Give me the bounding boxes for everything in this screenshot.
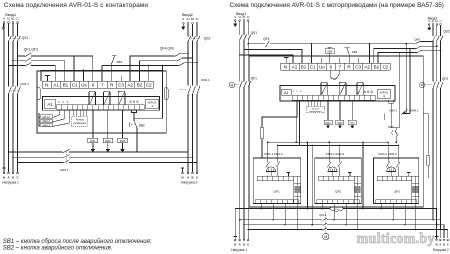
svg-text:A: A: [7, 176, 9, 180]
svg-text:N: N: [234, 243, 236, 247]
wire phase A2 vertical: [187, 24, 189, 172]
output bus N collector (right): [235, 209, 436, 240]
svg-text:К: К: [63, 102, 65, 104]
feed wire to bus between drives 1-2: [311, 146, 313, 225]
svg-text:B1: B1: [63, 82, 69, 87]
wire phase A vertical (left): [8, 23, 10, 172]
svg-text:N: N: [182, 18, 184, 21]
wire A1 to coil KM3 (right): [351, 100, 353, 120]
svg-text:A1: A1: [292, 65, 298, 70]
svg-text:B1: B1: [301, 65, 307, 70]
relay contact K2: [104, 91, 111, 105]
svg-text:B1: B1: [243, 17, 247, 19]
sense wire terminal B2 to input 2: [140, 61, 177, 81]
output bus phase A: [8, 151, 10, 153]
svg-text:C2: C2: [439, 21, 443, 23]
wires SB2 (right): [389, 100, 393, 103]
wire phase B2 vertical (right): [436, 25, 438, 225]
svg-text:AVR-01: AVR-01: [148, 102, 157, 105]
relay KM4 box: [325, 49, 335, 54]
A1 bottom terminal row (right): [292, 95, 375, 100]
wire A1 to coil KM3: [122, 110, 124, 138]
load 2 terminals (right): [435, 235, 439, 237]
svg-text:R: R: [347, 65, 351, 70]
wires drive 3 to buses: [381, 204, 415, 230]
ground at input 1 N (right): [234, 21, 236, 22]
svg-text:QS2: QS2: [443, 30, 450, 34]
indicator triangles: [130, 100, 132, 102]
svg-text:A2: A2: [186, 18, 190, 21]
sense wire A phase to terminal A1: [8, 65, 10, 67]
svg-text:Схема подключения AVR-01-S с м: Схема подключения AVR-01-S с моторпривод…: [230, 2, 444, 9]
aux contact rail: [38, 113, 40, 126]
svg-text:Ввод2: Ввод2: [182, 13, 193, 17]
reset button SB1: [110, 64, 112, 81]
svg-text:Ввод1: Ввод1: [5, 13, 16, 17]
enclosure box (left unit): [37, 71, 166, 133]
svg-text:КМ3.1 КМ3.2: КМ3.1 КМ3.2: [379, 152, 397, 156]
contacts in QF1: [266, 162, 270, 168]
svg-text:A2: A2: [127, 82, 133, 87]
svg-text:КМ2.2: КМ2.2: [43, 119, 51, 123]
load 2 terminals: [182, 172, 184, 174]
svg-text:A1: A1: [284, 90, 290, 95]
disconnector QS2 (right): [433, 36, 435, 41]
svg-text:КМ1.1 КМ1.2: КМ1.1 КМ1.2: [265, 152, 283, 156]
svg-text:B: B: [12, 176, 14, 180]
svg-text:SB2 – кнопка аварийного отключ: SB2 – кнопка аварийного отключения.: [3, 244, 113, 251]
svg-text:SB1: SB1: [352, 50, 358, 54]
svg-text:QF2: QF2: [335, 189, 341, 193]
stub above terminal C3: [120, 76, 122, 81]
svg-text:КМ1: КМ1: [326, 121, 332, 125]
output bus B (right): [244, 225, 444, 238]
earth in QF3: [407, 171, 411, 173]
svg-text:КМ3.1: КМ3.1: [60, 168, 69, 172]
relay contact K3: [118, 91, 125, 105]
svg-text:C2: C2: [383, 65, 389, 70]
svg-text:B: B: [243, 243, 245, 247]
wire to KM4 contact: [384, 114, 386, 121]
svg-text:QS2: QS2: [204, 36, 211, 40]
contacts in QF2: [327, 162, 331, 168]
svg-text:C1: C1: [16, 18, 20, 21]
bottom terminal row of QF2: [317, 200, 360, 204]
output bus phase B: [12, 156, 14, 158]
wire SB2 to bus: [136, 128, 138, 152]
controller unit A1 box: [43, 97, 160, 111]
svg-text:N: N: [234, 17, 236, 19]
drive coil in QF1: [266, 167, 275, 172]
contactor contact KM2.1: [188, 86, 191, 94]
wire from neutral link down to SB2: [134, 66, 162, 121]
wire A1 to coil KM2 (right): [339, 100, 341, 120]
enclosure box (right unit): [249, 56, 423, 207]
svg-text:QS1: QS1: [251, 31, 258, 35]
ground of KM1 (right): [327, 125, 329, 126]
A1 designator box: [44, 100, 55, 108]
wire phase C2 vertical: [196, 24, 198, 172]
aux contact KM1.2: [41, 115, 52, 119]
svg-text:C3: C3: [355, 65, 361, 70]
wire phase B1 vertical (right): [243, 21, 245, 239]
svg-text:N: N: [3, 176, 5, 180]
svg-text:QF5: QF5: [414, 38, 420, 42]
A1 bottom terminal row: [57, 105, 145, 110]
svg-text:M: M: [231, 83, 234, 87]
wire N phase vertical (left): [3, 23, 5, 172]
cable bushing left: [37, 88, 41, 100]
feed wires into QF1: [268, 142, 278, 162]
relay coil KM2 (right): [336, 120, 344, 125]
relay coil KM3 (right): [348, 120, 356, 125]
input 2 terminals: [182, 22, 184, 24]
contacts in QF3: [386, 162, 390, 168]
svg-text:КМ3.2: КМ3.2: [43, 123, 51, 127]
svg-text:7: 7: [339, 65, 342, 70]
motor drive unit QF1 box: [253, 158, 301, 204]
svg-text:C: C: [447, 243, 449, 247]
svg-text:multicom.by: multicom.by: [357, 231, 435, 247]
output bus C (right): [248, 230, 448, 239]
drive coil in QF3: [387, 167, 396, 172]
svg-text:C1: C1: [247, 17, 251, 19]
svg-text:C1: C1: [310, 65, 316, 70]
wire phase B2 vertical: [192, 24, 194, 172]
svg-text:КМ2.1: КМ2.1: [201, 78, 210, 82]
svg-text:QF3.1: QF3.1: [333, 209, 340, 211]
earth T above terminal N (right): [284, 56, 288, 58]
wire phase C1 vertical (right): [247, 21, 249, 239]
svg-text:-S: -S: [383, 94, 386, 98]
svg-text:N: N: [284, 65, 287, 70]
wires A1 to manual control (right): [307, 100, 309, 106]
svg-text:B2: B2: [137, 82, 143, 87]
svg-text:КМ1.2: КМ1.2: [43, 115, 51, 119]
mid terminal row of QF1: [257, 176, 294, 181]
feed wire to collector between drives 1-2: [306, 142, 308, 208]
ground of KM3 (right): [351, 125, 353, 126]
sense wire B1 (right): [243, 49, 245, 51]
svg-text:КМ3: КМ3: [350, 123, 355, 125]
svg-text:N: N: [3, 18, 5, 21]
input 1 terminals: [3, 22, 5, 24]
sense wire C1 / line 1 (right): [247, 43, 249, 45]
svg-text:КМ2: КМ2: [105, 139, 111, 143]
svg-text:Uo: Uo: [319, 65, 325, 70]
cable bushing on wire (right left): [260, 127, 264, 139]
relay contact K1 (right): [321, 82, 328, 95]
ground of coil KM2: [107, 143, 109, 150]
contactor coil KM1: [88, 138, 98, 143]
svg-text:B2: B2: [374, 65, 380, 70]
breaker QF1 (input 1): [240, 81, 243, 87]
svg-text:КМ4: КМ4: [327, 51, 333, 54]
svg-text:M: M: [324, 235, 327, 239]
sense wire line 2 to input 2 (right): [374, 49, 416, 63]
earth T above terminal N: [45, 74, 50, 76]
svg-text:Схема подключения AVR-01-S с к: Схема подключения AVR-01-S с контакторам…: [4, 2, 149, 9]
svg-text:КМ4.1: КМ4.1: [389, 109, 398, 113]
wire phase B vertical (left): [12, 23, 14, 172]
sense wire terminal 7 / C2 to input 2: [102, 66, 178, 82]
svg-text:B: B: [191, 176, 193, 180]
input 1 terminals (right): [234, 20, 236, 22]
motor drive unit QF2 box: [315, 158, 362, 204]
reset button SB1 (right): [348, 54, 350, 63]
wires A1 to manual control: [73, 110, 75, 116]
disconnector QS1 (right): [240, 35, 243, 40]
svg-text:Нагрузка 1: Нагрузка 1: [231, 248, 247, 252]
svg-text:Ввод1: Ввод1: [236, 12, 246, 16]
wire phase C2 vertical (right): [440, 25, 442, 229]
A1 designator box (right): [282, 89, 291, 95]
svg-text:управление: управление: [73, 122, 87, 125]
svg-text:6: 6: [92, 82, 95, 87]
mid terminal row of QF2: [319, 176, 354, 181]
svg-text:КМ2.1 КМ2.2: КМ2.1 КМ2.2: [326, 152, 344, 156]
terminal strip X1: [42, 81, 153, 88]
contactor coil KM2: [103, 138, 113, 143]
svg-text:A: A: [187, 176, 189, 180]
svg-text:QF4: QF4: [263, 37, 269, 41]
svg-text:QF4,QF6: QF4,QF6: [160, 47, 174, 51]
motor drive M of QF1: [229, 82, 235, 88]
svg-text:R: R: [110, 82, 114, 87]
load 1 terminals (right): [233, 235, 237, 237]
earth in QF2: [348, 171, 352, 173]
controller unit A1 box (right): [280, 86, 395, 102]
svg-text:C: C: [247, 243, 249, 247]
emergency button SB2: [128, 122, 131, 127]
svg-text:QF1: QF1: [274, 189, 280, 193]
svg-text:КМ2: КМ2: [337, 121, 343, 125]
mid terminal row of QF3: [377, 176, 411, 181]
disconnector QS2: [188, 36, 191, 41]
svg-text:A1: A1: [53, 82, 59, 87]
svg-text:A1: A1: [47, 102, 53, 107]
svg-text:QS1: QS1: [22, 36, 29, 40]
bottom terminal row of QF1: [255, 200, 299, 204]
svg-text:SB1: SB1: [117, 60, 123, 64]
tap to terminal C1: [73, 55, 75, 57]
ground of coil KM3: [122, 143, 124, 150]
wires drive 2 to buses: [322, 204, 358, 230]
ground at input 2 N: [182, 24, 184, 25]
svg-text:КМ3: КМ3: [120, 139, 126, 143]
svg-text:N: N: [428, 21, 430, 23]
svg-text:КМ1: КМ1: [90, 139, 96, 143]
distribution wire 1 (right): [268, 100, 388, 142]
svg-text:QF2: QF2: [442, 77, 448, 81]
wire A1 to coil KM1 (right): [327, 100, 329, 120]
svg-text:QF1: QF1: [251, 77, 257, 81]
relay contact K3 (right): [357, 82, 364, 95]
feed wires into QF2: [329, 142, 339, 162]
svg-text:A: A: [239, 243, 241, 247]
svg-text:управление: управление: [309, 111, 322, 113]
svg-text:C2: C2: [146, 82, 152, 87]
svg-text:Нагрузка 2: Нагрузка 2: [433, 248, 449, 252]
svg-text:Нагрузка 2: Нагрузка 2: [181, 181, 198, 185]
svg-text:N: N: [181, 176, 183, 180]
svg-text:КМ4.2: КМ4.2: [410, 109, 419, 113]
relay contact K2 (right): [339, 82, 346, 95]
cable bushing right: [165, 88, 169, 100]
earth in QF1: [287, 171, 291, 173]
svg-text:Ввод2: Ввод2: [428, 16, 438, 20]
motor drive M of QF3: [323, 233, 329, 239]
bus tie contact KM3.1: [63, 149, 70, 152]
wire phase A2 vertical (right): [432, 25, 434, 220]
svg-text:К: К: [67, 102, 69, 104]
svg-text:QF3.1: QF3.1: [319, 213, 327, 217]
neutral link wire to terminals N and Us: [41, 70, 162, 81]
svg-text:A1: A1: [7, 18, 11, 21]
svg-text:C: C: [16, 176, 18, 180]
manual control dashed box (right): [307, 106, 325, 113]
jumper loop terminals 6-7: [331, 70, 336, 79]
feed wire to collector between drives 2-3: [362, 142, 364, 208]
tap to terminal C2: [148, 65, 150, 67]
AVR-01-S label box: [145, 100, 159, 109]
svg-text:N: N: [436, 243, 438, 247]
svg-text:A1: A1: [238, 16, 242, 19]
svg-text:C2: C2: [195, 18, 199, 21]
svg-text:B1: B1: [11, 18, 15, 21]
svg-text:QF1,QF3: QF1,QF3: [24, 47, 38, 51]
svg-text:К: К: [300, 91, 302, 93]
svg-text:6: 6: [330, 65, 333, 70]
output bus phase C: [17, 162, 19, 164]
breaker QF2 (input 2): [433, 82, 435, 88]
aux contact KM2.2: [41, 119, 52, 123]
wire phase A1 vertical (right): [239, 21, 241, 239]
wire A1 to coil KM2: [107, 110, 109, 138]
feed wires into QF3: [388, 142, 398, 162]
junction to neutral link wire: [162, 65, 164, 67]
relay contact K1: [89, 91, 96, 105]
svg-text:C1: C1: [72, 82, 78, 87]
svg-text:N: N: [45, 82, 48, 87]
disconnector QS1: [9, 36, 12, 41]
terminal strip X1 (right): [281, 63, 390, 70]
sense wire A1 (right): [239, 54, 241, 56]
svg-text:SB2: SB2: [139, 124, 145, 128]
side terminal column of QF2: [354, 176, 361, 204]
svg-text:C3: C3: [118, 82, 124, 87]
aux contact KM3.2: [41, 123, 52, 127]
contactor contact KM1.1: [9, 86, 12, 94]
load 1 earth T: [2, 167, 5, 169]
sense wire C phase to terminal 6: [17, 55, 19, 57]
svg-text:A2: A2: [364, 65, 370, 70]
svg-text:AVR-01: AVR-01: [379, 90, 388, 94]
svg-text:К: К: [297, 91, 299, 93]
drive coil in QF2: [328, 167, 337, 172]
svg-text:К: К: [293, 91, 295, 93]
wire bushing feed to drive 1: [262, 100, 297, 127]
cable bushing (right side): [426, 155, 430, 166]
AVR-01-S label box (right): [378, 89, 391, 99]
ground of coil KM1: [92, 143, 94, 150]
svg-text:A: A: [439, 243, 441, 247]
wires drive 1 to buses: [261, 204, 297, 230]
motor drive unit QF3 box: [374, 158, 419, 204]
bottom terminal row of QF3: [376, 200, 417, 204]
wire A1 to coil KM1: [92, 110, 94, 138]
svg-text:К: К: [59, 102, 61, 104]
svg-text:7: 7: [101, 82, 104, 87]
output bus A (right): [240, 220, 441, 238]
svg-text:Нагрузка 1: Нагрузка 1: [2, 181, 19, 185]
sense wire B phase to terminal B1: [12, 60, 14, 62]
stubs above terminals Uo 7 C3 (right): [322, 58, 358, 63]
ground at input 2 N (right): [428, 25, 430, 26]
load 2 earth T: [181, 167, 184, 169]
svg-text:-S: -S: [151, 105, 154, 108]
side terminal column of QF1: [294, 176, 301, 204]
svg-text:SB1 – кнопка сброса после авар: SB1 – кнопка сброса после аварийного отк…: [3, 238, 152, 245]
side terminal column of QF3: [412, 176, 419, 204]
motor drive M of QF2: [420, 82, 425, 87]
manual control dashed box: [72, 116, 88, 126]
indicator triangles (right): [364, 90, 366, 92]
svg-text:QF3: QF3: [394, 189, 400, 193]
sense wire line 3 to input 2 (right): [378, 53, 416, 63]
wire loop to button SB2: [132, 110, 137, 113]
svg-text:B: B: [443, 243, 445, 247]
contactor coil KM3: [118, 138, 128, 143]
sense wire terminal A2 to input 2 (QF4): [130, 56, 174, 81]
svg-text:C: C: [196, 176, 198, 180]
wire phase C vertical (left): [17, 23, 19, 172]
distribution wire 2 (right): [278, 100, 398, 145]
svg-text:Us: Us: [81, 82, 87, 87]
bus tie breaker QF3.1: [322, 218, 327, 220]
ground at input 1 N: [2, 23, 5, 25]
svg-text:КМ1.1: КМ1.1: [21, 82, 30, 86]
svg-text:B2: B2: [191, 18, 195, 21]
input 2 terminals (right): [428, 24, 430, 26]
load 1 terminals: [3, 172, 5, 174]
relay coil KM1 (right): [324, 120, 332, 125]
ground of KM2 (right): [339, 125, 341, 126]
